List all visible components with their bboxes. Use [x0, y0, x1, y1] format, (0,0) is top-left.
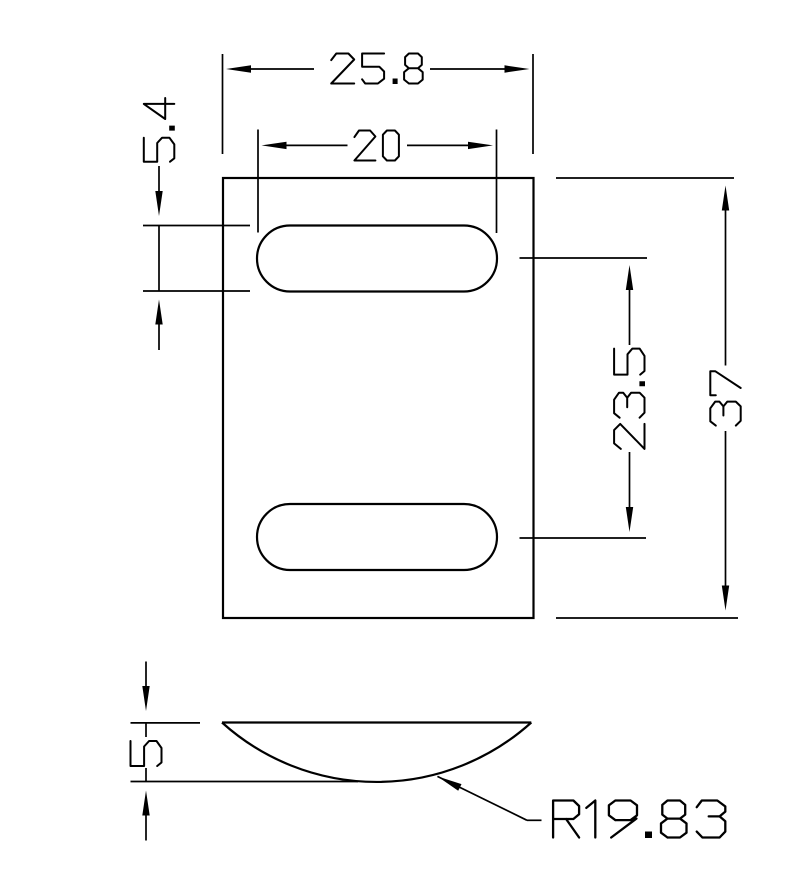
dim 20 arrow left	[262, 142, 287, 149]
dim 37 extension line top	[556, 177, 734, 179]
leader text R19.83	[553, 801, 725, 838]
dim 23.5 arrow up	[626, 265, 633, 290]
dim 23.5 arrow down	[626, 507, 633, 532]
slot bottom (20 x 5.4 obround)	[257, 504, 497, 570]
lens bottom arc	[222, 723, 531, 782]
dim 5 lower tail line	[145, 816, 147, 841]
dim 25.8 line left segment	[251, 68, 314, 70]
dim 5.4 extension line top	[143, 225, 250, 227]
dim 25.8 arrow left	[226, 65, 251, 72]
dim text 25.8	[331, 54, 423, 84]
dim text 23.5 (rotated)	[614, 349, 644, 449]
dim 25.8 arrow right	[505, 65, 530, 72]
dim text 5 (rotated)	[131, 741, 162, 766]
dim 5.4 middle segment	[158, 226, 160, 292]
dim 5.4 arrow down	[155, 191, 162, 216]
plate outline	[223, 178, 534, 618]
dim 5 upper middle segment	[145, 723, 147, 737]
dim 23.5 lower segment	[629, 452, 631, 507]
dim 5 extension line top	[131, 722, 201, 724]
dim 20 extension line left	[257, 130, 259, 233]
leader line	[437, 776, 527, 820]
leader arrow at arc	[437, 776, 461, 790]
dim 37 arrow up	[722, 186, 729, 211]
dim 20 arrow right	[468, 142, 493, 149]
dim 20 line left segment	[287, 144, 348, 146]
dim 25.8 extension line left	[222, 54, 224, 154]
dim 5.4 arrow up	[155, 300, 162, 325]
dim 37 arrow down	[722, 586, 729, 611]
dim 37 extension line bottom	[556, 617, 738, 619]
slot top (20 x 5.4 obround)	[257, 226, 497, 292]
dim 20 extension line right	[496, 130, 498, 234]
dim 5 lower middle segment	[145, 768, 147, 782]
dim 23.5 extension line top	[520, 257, 648, 259]
dim 5 extension line bottom	[131, 781, 359, 783]
dim 5 upper tail line	[145, 662, 147, 687]
dim 23.5 extension line bottom	[520, 537, 647, 539]
leader landing line	[527, 819, 542, 821]
lens top edge	[222, 721, 531, 723]
dim 5 arrow up	[142, 791, 149, 816]
dim 20 line right segment	[407, 144, 468, 146]
dim 5 arrow down	[142, 686, 149, 711]
dim 25.8 line right segment	[430, 68, 505, 70]
dim 5.4 lower tail line	[158, 318, 160, 351]
dim 5.4 upper tail line	[158, 166, 160, 199]
dim 5.4 extension line bottom	[143, 290, 250, 292]
dim text 20	[354, 131, 399, 161]
dim 37 lower segment	[725, 431, 727, 586]
dim 37 upper segment	[725, 211, 727, 366]
dim text 37 (rotated)	[710, 371, 740, 425]
dim 23.5 upper segment	[629, 290, 631, 345]
dim 25.8 extension line right	[532, 54, 534, 154]
dim text 5.4 (rotated)	[144, 98, 175, 162]
